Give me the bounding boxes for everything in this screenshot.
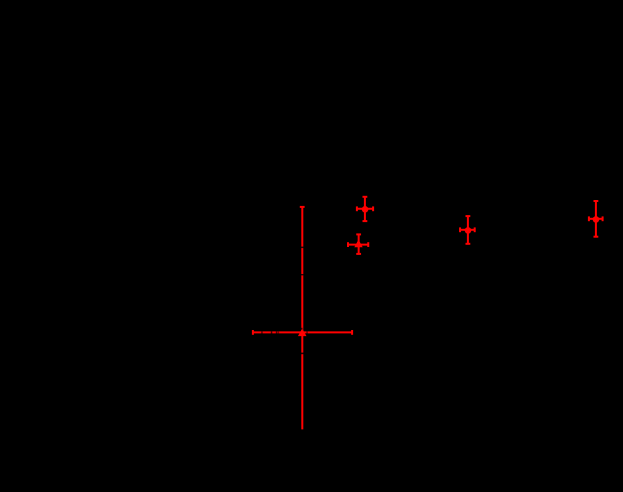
data point P5 group (circle marker) [589,201,603,237]
P1 left cap [252,330,254,335]
P2 left cap [347,242,349,247]
P4 top cap [466,215,471,217]
P4 left cap [459,227,461,232]
P3 right cap [372,206,374,211]
P1 top cap [300,206,305,208]
P5 left cap [588,216,590,221]
P5 circle marker [593,216,600,223]
P3 top cap [363,196,368,198]
P5 bottom cap [594,236,599,238]
P4 bottom cap [466,243,471,245]
P5 vertical error bar [595,201,597,237]
P1 triangle marker [299,329,306,336]
P5 right cap [602,216,604,221]
black occluder notch on P1 horizontal bar right of marker [306,331,308,333]
black occluder notch on P1 vertical bar at y=353.4 [301,353,304,355]
black occluder notch on P1 vertical bar at y=247 [301,247,304,249]
data point P1 group (triangle marker, large errors) [253,207,352,430]
P3 horizontal error bar [357,208,373,210]
P4 circle marker [465,227,472,234]
P2 vertical error bar [358,234,360,254]
data point P2 group (triangle marker) [348,234,368,254]
P1 right cap [351,330,353,335]
black occluder notch on P1 horizontal bar at x=271.5 [271,331,273,333]
P5 top cap [594,200,599,202]
black occluder notch on P1 horizontal bar at x=278.3 [278,331,279,333]
P2 top cap [356,233,361,235]
P2 right cap [367,242,369,247]
P4 vertical error bar [467,216,469,244]
P3 vertical error bar [364,197,366,221]
black occluder notch on P1 vertical bar above triangle apex [301,328,303,330]
P1 horizontal error bar [253,331,352,333]
P3 left cap [356,206,358,211]
P2 triangle marker [355,240,362,247]
P2 bottom cap [356,253,361,255]
black occluder notch on P1 vertical bar at y=274.6 [301,274,304,275]
P4 right cap [474,227,476,232]
black occluder notch on P1 horizontal bar at x=276.5 [276,331,278,333]
P1 vertical error bar [301,207,303,430]
P2 horizontal error bar [348,244,368,246]
P3 bottom cap [363,220,368,222]
data point P4 group (circle marker) [460,216,475,244]
P3 circle marker [362,206,369,213]
P4 horizontal error bar [460,229,475,231]
data point P3 group (circle marker) [357,197,373,221]
P5 horizontal error bar [589,218,603,220]
black occluder notch on P1 horizontal bar at x=261.9 [261,331,262,333]
